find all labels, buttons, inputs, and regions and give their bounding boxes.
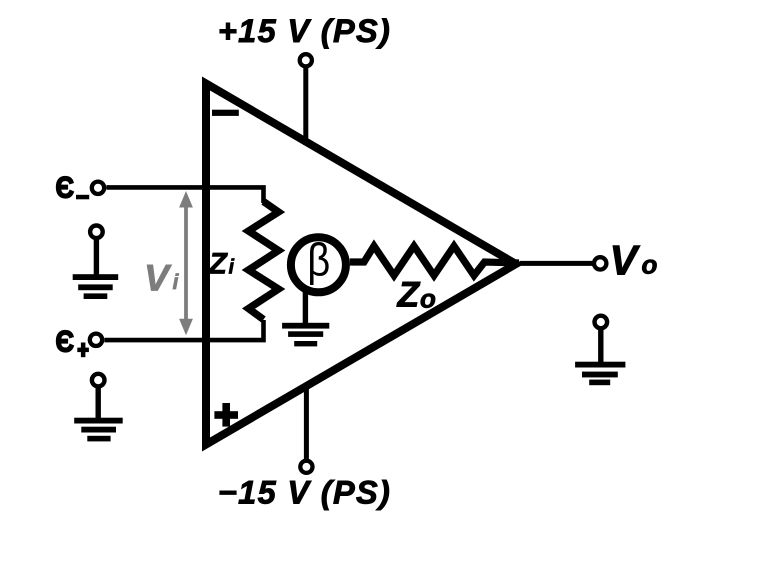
label -15 V (PS) xyxy=(218,475,391,511)
svg-text:+15 V (PS): +15 V (PS) xyxy=(218,13,391,49)
op-amp U1 triangle body xyxy=(206,84,516,445)
label Zi xyxy=(208,248,235,281)
svg-text:β: β xyxy=(307,234,330,286)
svg-text:o: o xyxy=(420,283,436,313)
svg-text:V: V xyxy=(610,236,641,283)
dependent source beta circle U2 xyxy=(291,237,346,292)
svg-text:V: V xyxy=(144,256,172,298)
label +15 V (PS) xyxy=(218,13,391,49)
label Vo xyxy=(610,236,658,283)
wire epsilon-minus to Zi xyxy=(106,187,263,203)
svg-text:Є: Є xyxy=(56,172,75,205)
svg-text:−15 V (PS): −15 V (PS) xyxy=(218,475,391,511)
Vi measurement arrow (gray) xyxy=(179,191,193,335)
wire +15V to U1 top edge xyxy=(303,67,308,145)
label Zo xyxy=(397,274,437,314)
ground G3 (below beta) xyxy=(282,323,329,347)
terminal -15V (PS) xyxy=(300,461,312,473)
svg-text:Z: Z xyxy=(397,274,421,314)
node epsilon-minus label xyxy=(56,172,90,205)
resistor Zi zigzag xyxy=(249,202,279,320)
ground G2 (below epsilon-plus) xyxy=(74,374,123,442)
inverting input marker - xyxy=(212,110,239,116)
svg-text:Є: Є xyxy=(56,325,75,358)
ground G1 (below epsilon-minus) xyxy=(73,226,119,300)
svg-text:Z: Z xyxy=(208,248,229,281)
terminal epsilon-minus xyxy=(92,182,104,194)
svg-text:i: i xyxy=(173,270,180,294)
wire beta to ground xyxy=(303,291,308,324)
wire -15V to U1 bottom edge xyxy=(304,383,309,460)
ground G4 (below Vo) xyxy=(575,316,625,386)
wire epsilon-plus to Zi xyxy=(104,320,263,340)
svg-text:o: o xyxy=(642,249,658,279)
svg-text:i: i xyxy=(229,257,235,279)
non-inverting input marker + xyxy=(214,403,238,427)
resistor Zo zigzag xyxy=(350,246,519,276)
label beta xyxy=(307,234,330,286)
label Vi (gray) xyxy=(144,256,180,298)
output wire U1 to Vo terminal xyxy=(520,261,593,266)
terminal +15V (PS) xyxy=(300,54,312,66)
node epsilon-plus label xyxy=(56,325,89,358)
terminal Vo xyxy=(594,257,606,269)
terminal epsilon-plus xyxy=(90,334,102,346)
